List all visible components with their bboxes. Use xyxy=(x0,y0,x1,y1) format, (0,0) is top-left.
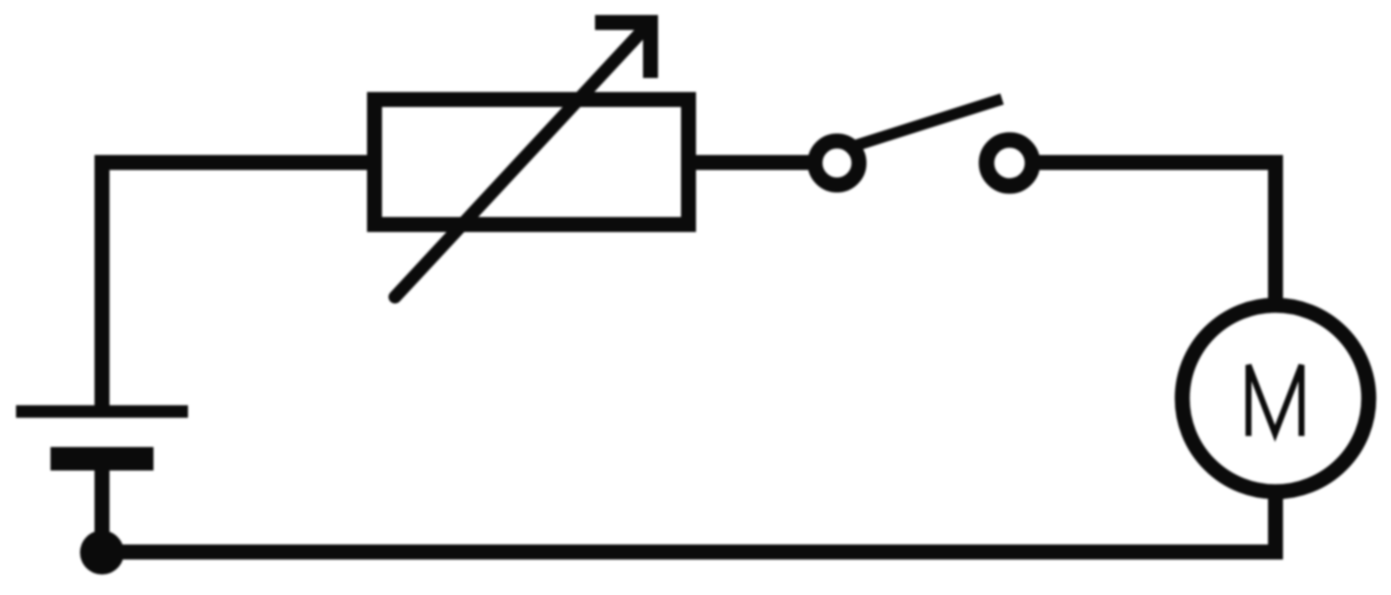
node: bottom-left junction dot xyxy=(80,531,124,575)
resistor R1 (variable rheostat) body xyxy=(375,100,689,225)
motor U1 circle xyxy=(1182,305,1369,492)
rheostat arrowhead xyxy=(595,15,658,78)
wire: switch to top-right corner down to motor xyxy=(1039,163,1276,313)
rheostat wiper arrow shaft xyxy=(395,29,644,297)
wire: battery to bottom junction xyxy=(95,465,110,552)
switch S1 right contact xyxy=(987,140,1033,186)
switch S1 lever (open) xyxy=(851,99,1002,147)
wire: rheostat to switch xyxy=(696,155,812,170)
wire: motor to bottom-right corner and bottom run xyxy=(102,485,1276,552)
battery B1 positive plate (long) xyxy=(16,405,188,418)
motor label M xyxy=(1249,365,1302,436)
battery B1 negative plate (short, thick) xyxy=(51,447,154,471)
wire: top-left corner run (left vertical + top horizontal to rheostat) xyxy=(102,163,368,411)
switch S1 left contact xyxy=(815,141,859,185)
